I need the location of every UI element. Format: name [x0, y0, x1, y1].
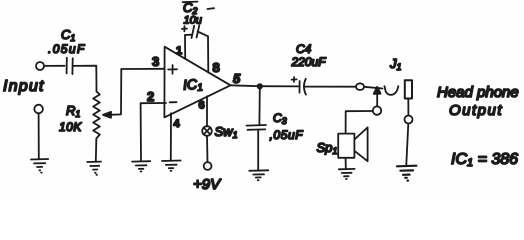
capacitor C4: [291, 42, 327, 95]
ground under pin 4: [162, 161, 181, 171]
wire C4 to terminal: [305, 86, 356, 88]
svg-text:Output: Output: [449, 102, 503, 119]
wire terminal to jack: [364, 87, 383, 89]
ground under C3: [249, 170, 268, 180]
ground under pin 2 wire: [132, 161, 150, 171]
wire SW1 to battery terminal: [206, 136, 209, 162]
R1 wiper arrow to pin 3: [103, 69, 121, 118]
junction arrow at jack wire: [374, 87, 381, 107]
pin 3 label: [152, 54, 159, 69]
ground under jack: [397, 166, 416, 181]
svg-text:220uF: 220uF: [291, 55, 327, 69]
capacitor C3: [247, 111, 304, 142]
wire speaker to ground: [345, 158, 347, 169]
wire input to C1: [44, 65, 64, 67]
wire pin 3: [121, 68, 164, 70]
pin 5 label: [233, 71, 241, 86]
speaker Sp1: [317, 127, 368, 161]
wire R1 to ground: [95, 141, 98, 161]
switch SW1: [202, 124, 237, 140]
ground under input: [31, 159, 48, 173]
svg-text:,05uF: ,05uF: [270, 128, 304, 142]
pin 4 label: [174, 118, 181, 130]
pin 1 lead: [184, 35, 186, 59]
label J1: [389, 56, 402, 72]
pin 2 label: [147, 89, 154, 104]
svg-text:J1: J1: [389, 56, 402, 72]
svg-text:8: 8: [213, 60, 220, 75]
svg-text:3: 3: [152, 54, 159, 69]
+9V terminal circle: [204, 162, 212, 170]
input terminal bottom: [34, 105, 43, 114]
svg-text:1: 1: [176, 45, 182, 57]
wire junction to C4: [260, 85, 299, 87]
wire bottom terminal to ground: [38, 113, 40, 158]
jack terminal circle: [405, 116, 413, 124]
svg-text:4: 4: [174, 118, 181, 130]
pin 4 lead: [170, 113, 172, 160]
svg-text:10K: 10K: [59, 120, 82, 134]
wire junction down to C3: [258, 86, 260, 125]
svg-text:2: 2: [147, 89, 154, 104]
ground under R1: [87, 162, 101, 175]
wire C3 to ground: [257, 130, 259, 170]
jack J1 tip contact hook: [384, 86, 398, 95]
pin 8 label: [213, 60, 220, 75]
svg-text:Sp1: Sp1: [317, 140, 338, 156]
svg-text:Input: Input: [3, 78, 45, 95]
wire C1 to R1 top: [73, 66, 97, 92]
speaker terminal circle: [373, 106, 381, 114]
label IC1: [182, 75, 203, 94]
op-amp - input mark: [170, 101, 177, 103]
pin 5 output wire: [231, 84, 260, 87]
capacitor C1: [48, 27, 86, 74]
label Output: [449, 102, 503, 119]
label IC1 = 386: [451, 151, 518, 169]
resistor R1 (potentiometer): [59, 92, 100, 142]
op-amp + input mark: [168, 65, 177, 74]
svg-text:Head phone: Head phone: [437, 84, 519, 101]
terminal circle on output line: [356, 83, 364, 90]
svg-text:C3: C3: [273, 111, 287, 126]
label Input: [3, 78, 45, 95]
svg-text:C4: C4: [296, 42, 312, 56]
label +9V: [193, 176, 222, 193]
junction node output: [258, 84, 262, 88]
label Head phone: [437, 84, 519, 101]
svg-text:.05uF: .05uF: [48, 42, 86, 56]
input terminal top: [36, 62, 44, 70]
wire terminal to speaker: [346, 111, 373, 133]
pin 6 lead: [206, 96, 208, 126]
wire jack terminal to ground: [406, 124, 408, 165]
pin 6 label: [199, 100, 205, 112]
svg-text:R1: R1: [66, 103, 80, 119]
svg-text:10u: 10u: [184, 15, 202, 27]
svg-text:6: 6: [199, 100, 205, 112]
capacitor C2: [182, 0, 214, 38]
op-amp IC1 triangle: [164, 47, 230, 118]
svg-text:C1: C1: [61, 27, 75, 43]
svg-text:Sw1: Sw1: [215, 124, 238, 140]
svg-text:5: 5: [233, 71, 241, 86]
wire pin 2 to ground: [141, 103, 166, 161]
svg-text:+9V: +9V: [193, 176, 222, 193]
svg-text:IC1 = 386: IC1 = 386: [451, 151, 518, 169]
pin 1 label: [176, 45, 182, 57]
ground under speaker: [339, 169, 355, 179]
jack sleeve lead: [407, 99, 409, 116]
svg-text:IC1: IC1: [182, 75, 203, 94]
jack J1 sleeve: [405, 80, 412, 98]
pin 8 lead: [207, 36, 209, 72]
